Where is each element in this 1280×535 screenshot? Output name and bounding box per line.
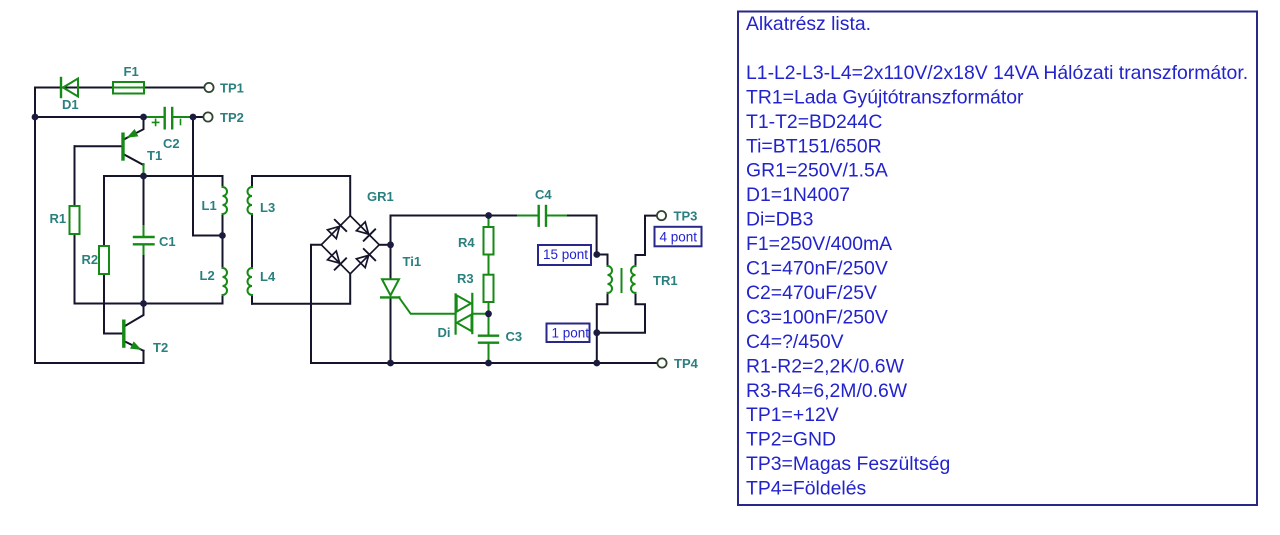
svg-text:D1=1N4007: D1=1N4007 <box>746 184 850 206</box>
svg-text:GR1=250V/1.5A: GR1=250V/1.5A <box>746 160 888 182</box>
svg-text:L4: L4 <box>260 269 276 284</box>
junction C1 bottom node <box>140 300 147 307</box>
svg-text:TP2: TP2 <box>220 110 244 125</box>
GR1 diode top-left <box>328 220 347 239</box>
wire node line y176 <box>104 176 223 187</box>
resistor R4 <box>484 216 494 275</box>
wire ground rail bottom <box>311 362 657 364</box>
transistor T1 <box>123 130 144 176</box>
capacitor C1 <box>134 226 154 254</box>
wire TR1 primary top <box>597 255 608 267</box>
inductor L4 <box>248 268 253 295</box>
junction Di output <box>485 310 492 317</box>
svg-text:1 pont: 1 pont <box>552 326 590 341</box>
wire R2 top lead <box>103 176 105 246</box>
svg-text:C1=470nF/250V: C1=470nF/250V <box>746 258 888 280</box>
junction C2 right <box>190 114 197 121</box>
inductor L2 <box>223 268 228 295</box>
junction left rail TP2 <box>32 114 39 121</box>
terminal TP4 <box>657 358 666 367</box>
svg-text:C3=100nF/250V: C3=100nF/250V <box>746 306 888 328</box>
svg-text:C4: C4 <box>535 187 552 202</box>
svg-text:4 pont: 4 pont <box>660 230 698 245</box>
wire TP2 to L1-L2 junction <box>193 117 222 236</box>
svg-text:Ti1: Ti1 <box>403 254 422 269</box>
resistor R1 <box>70 206 80 234</box>
svg-text:R1: R1 <box>50 211 67 226</box>
wire TP1 top rail <box>35 87 204 89</box>
wire C4 right to 15pont <box>547 216 597 255</box>
wire L4 bottom to bridge <box>252 274 350 304</box>
svg-text:R3: R3 <box>457 271 474 286</box>
box 1 pont <box>547 324 590 343</box>
wire bridge left vertex to ground rail <box>311 245 321 363</box>
wire L3 top to bridge <box>252 176 350 216</box>
wire C1 leads <box>143 176 145 304</box>
svg-text:TP1: TP1 <box>220 81 244 96</box>
transistor T2 <box>124 321 141 349</box>
wire left rail +12V loop <box>35 88 144 364</box>
svg-text:R3-R4=6,2M/0.6W: R3-R4=6,2M/0.6W <box>746 380 908 402</box>
svg-text:TP4: TP4 <box>674 356 699 371</box>
svg-text:GR1: GR1 <box>367 189 394 204</box>
wire 1pont to ground rail <box>596 333 598 363</box>
svg-text:TR1=Lada Gyújtótranszformátor: TR1=Lada Gyújtótranszformátor <box>746 86 1024 108</box>
svg-text:C4=?/450V: C4=?/450V <box>746 331 844 353</box>
svg-text:TP3=Magas Feszültség: TP3=Magas Feszültség <box>746 453 950 475</box>
svg-text:L1-L2-L3-L4=2x110V/2x18V 14VA: L1-L2-L3-L4=2x110V/2x18V 14VA Hálózati t… <box>746 62 1248 84</box>
svg-text:TP1=+12V: TP1=+12V <box>746 404 839 426</box>
box 15 pont <box>538 245 591 265</box>
svg-text:C2=470uF/25V: C2=470uF/25V <box>746 282 877 304</box>
svg-text:T1-T2=BD244C: T1-T2=BD244C <box>746 111 882 133</box>
wire T1 emitter <box>125 117 144 139</box>
svg-text:T1: T1 <box>147 148 162 163</box>
junction bridge output <box>387 241 394 248</box>
transformer TR1 core <box>621 269 623 292</box>
wire TR1 secondary top to TP3 <box>636 216 656 266</box>
wire Ti1 cathode down <box>390 298 392 363</box>
wire TR1 secondary bottom to 1pont <box>597 293 645 333</box>
wire R1 leads <box>74 146 76 303</box>
wire L3-L4 column straights <box>251 176 253 304</box>
svg-text:C1: C1 <box>159 234 176 249</box>
bridge rectifier GR1 <box>321 216 379 274</box>
wire TR1 primary bottom <box>597 293 608 304</box>
wire T1 collector <box>125 155 144 165</box>
wire 15pont down to 1pont <box>596 304 598 332</box>
wire L1-L2 column straights <box>222 214 224 304</box>
svg-text:TR1: TR1 <box>653 273 678 288</box>
svg-text:L1: L1 <box>202 198 217 213</box>
junction 1 pont node <box>593 329 600 336</box>
diac Di <box>456 294 489 334</box>
svg-text:R4: R4 <box>458 235 475 250</box>
junction 15 pont node <box>593 251 600 258</box>
svg-text:L2: L2 <box>200 268 215 283</box>
wire T2 collector <box>125 304 144 327</box>
svg-text:L3: L3 <box>260 200 275 215</box>
wire T2 emitter diagonal <box>125 342 144 351</box>
fuse F1 <box>113 82 144 94</box>
svg-text:R2: R2 <box>82 252 99 267</box>
GR1 diode top-right <box>356 222 375 241</box>
wire top rail to C4 <box>391 216 539 245</box>
wire R2 bottom lead to T2 base <box>104 274 122 334</box>
inductor L1 <box>223 187 228 214</box>
svg-text:Alkatrész lista.: Alkatrész lista. <box>746 13 871 35</box>
resistor R3 <box>484 275 494 314</box>
svg-text:R1-R2=2,2K/0.6W: R1-R2=2,2K/0.6W <box>746 355 905 377</box>
svg-text:TP2=GND: TP2=GND <box>746 429 836 451</box>
box 4 pont <box>655 227 702 247</box>
diode D1 <box>61 78 78 97</box>
transformer TR1 secondary winding <box>631 266 636 293</box>
wire TP2 rail right <box>173 116 203 118</box>
GR1 diode bottom-left <box>328 251 347 270</box>
svg-text:TP3: TP3 <box>674 209 698 224</box>
svg-text:T2: T2 <box>153 340 168 355</box>
svg-text:15 pont: 15 pont <box>543 247 588 262</box>
svg-text:Di: Di <box>438 325 451 340</box>
capacitor C4 <box>518 206 566 226</box>
junction C3 ground <box>485 360 492 367</box>
junction TR1 ground <box>593 360 600 367</box>
junction C2 left <box>140 114 147 121</box>
svg-text:F1: F1 <box>124 64 139 79</box>
terminal TP1 <box>204 83 213 92</box>
terminal TP2 <box>203 112 212 121</box>
wire TP2 rail left <box>35 116 164 118</box>
wire bridge right vertex to node <box>379 244 390 246</box>
svg-text:D1: D1 <box>62 97 79 112</box>
junction Ti1 ground <box>387 360 394 367</box>
thyristor Ti1 <box>381 279 455 314</box>
junction T1 collector node <box>140 173 147 180</box>
GR1 diode bottom-right <box>356 249 375 268</box>
wire T1 base <box>75 145 122 147</box>
svg-text:Ti=BT151/650R: Ti=BT151/650R <box>746 135 882 157</box>
capacitor C2 <box>144 108 194 128</box>
svg-text:Di=DB3: Di=DB3 <box>746 209 813 231</box>
svg-text:C2: C2 <box>163 136 180 151</box>
wire bottom rail left <box>75 303 223 305</box>
svg-text:C3: C3 <box>506 329 523 344</box>
parts list frame <box>738 12 1257 506</box>
terminal TP3 <box>657 211 666 220</box>
wire Ti1 anode <box>390 245 392 279</box>
svg-text:TP4=Földelés: TP4=Földelés <box>746 478 866 500</box>
capacitor C3 <box>479 314 498 363</box>
PARTSLIST <box>738 12 1257 506</box>
svg-text:F1=250V/400mA: F1=250V/400mA <box>746 233 892 255</box>
inductor L3 <box>248 187 253 214</box>
resistor R2 <box>99 246 109 274</box>
junction R4 top <box>485 212 492 219</box>
junction L1-L2 tap <box>219 232 226 239</box>
transformer TR1 primary winding <box>608 266 613 293</box>
